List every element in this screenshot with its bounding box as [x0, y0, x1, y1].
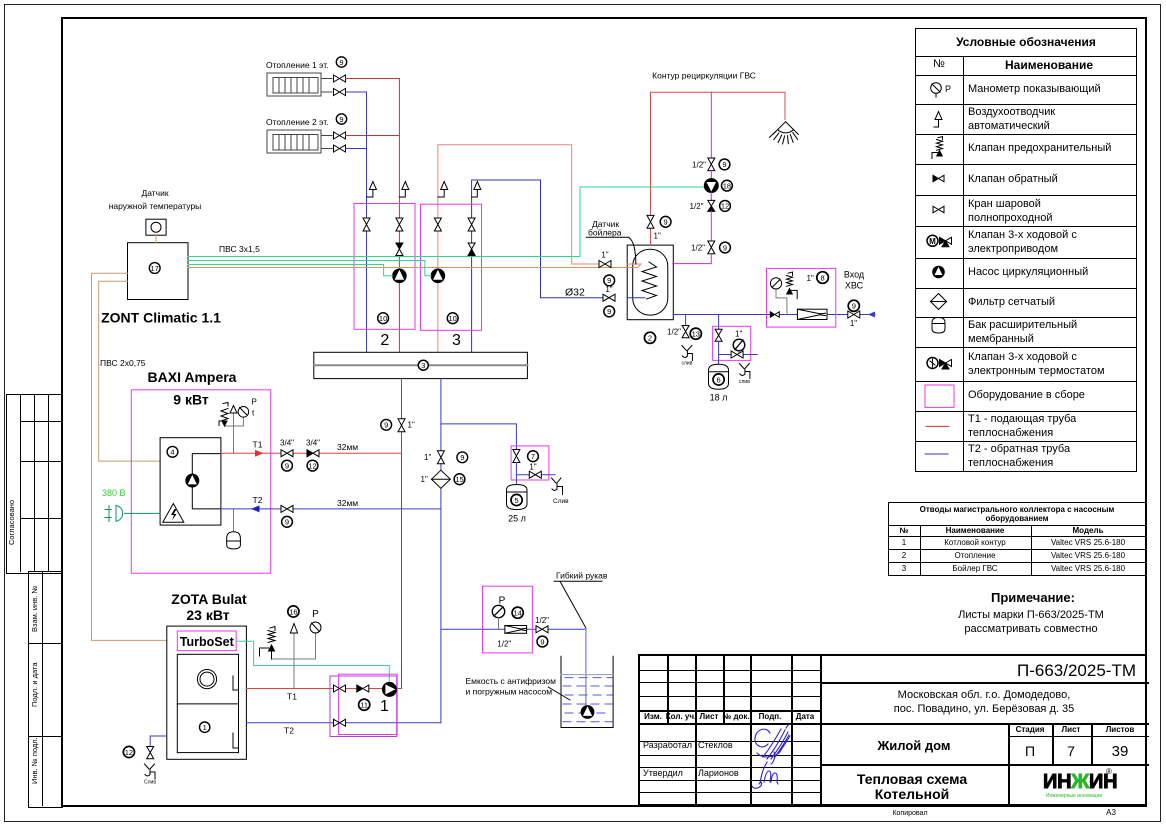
- svg-text:1/2": 1/2": [497, 640, 511, 649]
- firebox divider: [177, 703, 238, 705]
- svg-text:2: 2: [648, 334, 652, 343]
- ball valve 18l drain: [731, 351, 743, 358]
- wire cable green to pump2: [188, 265, 393, 276]
- legend symbol expansion tank: [932, 318, 945, 334]
- ball valve 25l: [513, 450, 520, 463]
- wire T1 BAXI: [221, 452, 402, 454]
- svg-text:Датчик: Датчик: [141, 188, 168, 198]
- svg-text:9: 9: [723, 243, 727, 252]
- svg-text:слив: слив: [682, 361, 693, 367]
- svg-text:BAXI Ampera: BAXI Ampera: [148, 369, 237, 385]
- svg-text:1": 1": [654, 232, 661, 241]
- svg-text:T1: T1: [253, 440, 263, 450]
- wire to antifreeze tank: [441, 628, 586, 630]
- wire cable green to pump3: [188, 261, 431, 276]
- ball valve radiator1 return: [334, 89, 346, 96]
- drain hook ZOTA: [145, 764, 156, 779]
- check valve T1 BAXI: [307, 450, 319, 457]
- air vent ZOTA: [290, 624, 297, 634]
- ball valve antifreeze: [536, 626, 548, 633]
- svg-text:1: 1: [380, 698, 389, 715]
- svg-text:18 л: 18 л: [710, 393, 728, 403]
- left stamp section B: [28, 571, 63, 808]
- wire T2 radiator1: [346, 91, 367, 93]
- svg-text:9: 9: [285, 461, 289, 470]
- pump group2: [393, 269, 407, 283]
- svg-text:12: 12: [721, 202, 729, 211]
- legend symbol air vent: [934, 112, 942, 128]
- wire DHW boiler supply riser: [438, 145, 605, 352]
- DHW recirculation loop: [651, 92, 786, 216]
- ball valve unit1 T2: [334, 719, 346, 726]
- header labels: [644, 713, 662, 721]
- tag 14: [512, 607, 523, 618]
- tag 15 strainer: [454, 474, 465, 485]
- svg-text:Ø32: Ø32: [565, 287, 585, 299]
- label Гибкий рукав: [554, 571, 608, 629]
- svg-text:ПВС 3х1,5: ПВС 3х1,5: [219, 244, 260, 254]
- tag 9 radiator 2: [336, 114, 346, 124]
- pump BAXI: [186, 474, 199, 487]
- expansion 25l assembly box: [511, 446, 549, 480]
- indirect boiler tank: [627, 245, 673, 320]
- ZOTA firebox: [177, 654, 238, 752]
- svg-text:6: 6: [717, 375, 721, 384]
- expansion tank 18l: [709, 364, 729, 389]
- ball valve unit1 T1: [334, 685, 346, 692]
- wire sensor inside tank: [627, 265, 640, 268]
- collector: [314, 352, 528, 378]
- tag 12 drain: [123, 746, 134, 757]
- ball valve boiler supply: [599, 261, 611, 268]
- svg-text:380 В: 380 В: [102, 488, 126, 498]
- wire 18l lines: [719, 341, 758, 364]
- svg-text:7: 7: [531, 452, 535, 461]
- strainer filter riser T2: [432, 470, 451, 488]
- svg-text:ZOTA Bulat: ZOTA Bulat: [171, 591, 247, 607]
- svg-text:9: 9: [339, 58, 343, 67]
- label Датчик бойлера: [586, 219, 636, 264]
- svg-text:15: 15: [455, 475, 463, 484]
- BAXI boiler body: [160, 438, 221, 525]
- expansion 18l assembly box: [713, 326, 751, 360]
- svg-text:и погружным насосом: и погружным насосом: [466, 687, 553, 697]
- ball valve ZOTA drain: [147, 747, 154, 759]
- ball valve riser T1: [398, 419, 405, 432]
- legend symbol T2 line: [925, 453, 948, 455]
- tag 3 collector: [418, 360, 428, 370]
- svg-text:32мм: 32мм: [337, 442, 358, 452]
- svg-text:9: 9: [285, 518, 289, 527]
- legend symbol manometer: [931, 83, 951, 97]
- svg-text:ХВС: ХВС: [845, 281, 864, 291]
- small table отводы: [888, 502, 1146, 576]
- door latch top: [233, 676, 239, 690]
- svg-text:1": 1": [408, 421, 415, 430]
- tag 9 inlet: [848, 300, 859, 311]
- tag 9 boiler supply: [604, 275, 615, 286]
- strainer filter antifreeze: [505, 626, 527, 634]
- tag 13: [690, 328, 701, 339]
- wire cable to ZOTA: [92, 273, 178, 640]
- tag 5: [511, 494, 522, 505]
- Согласовано label: [8, 500, 16, 545]
- svg-text:1": 1": [735, 329, 742, 338]
- svg-text:9: 9: [460, 453, 464, 462]
- heating coil: [642, 262, 657, 299]
- manometer antifreeze: [492, 605, 504, 617]
- wire 380V: [125, 512, 161, 514]
- wire recirc return magenta: [710, 92, 712, 158]
- svg-text:Отопление 2 эт.: Отопление 2 эт.: [266, 117, 329, 127]
- wire heating supply riser: [398, 79, 400, 353]
- tag 12 check: [307, 460, 318, 471]
- water level: [561, 674, 613, 676]
- tag 9 radiator 1: [336, 57, 346, 67]
- tag 9 recirc bottom: [720, 242, 731, 253]
- svg-text:T2: T2: [253, 495, 263, 505]
- svg-text:T2: T2: [284, 726, 294, 736]
- svg-text:1": 1": [424, 453, 431, 462]
- svg-text:23 кВт: 23 кВт: [186, 607, 229, 623]
- T2 flow arrow: [251, 505, 260, 512]
- safety valve ZOTA: [260, 627, 276, 660]
- wire radiator1 return stub: [321, 91, 332, 93]
- radiator heating 1st floor: [267, 73, 321, 96]
- svg-text:1/2": 1/2": [690, 202, 704, 211]
- svg-text:32мм: 32мм: [337, 498, 358, 508]
- svg-text:наружной температуры: наружной температуры: [109, 201, 202, 211]
- svg-text:1: 1: [203, 723, 207, 732]
- inlet group stems: [776, 289, 787, 315]
- ball valve recirc supply: [647, 215, 654, 228]
- signature 2: [752, 762, 778, 788]
- tag 1 zota: [200, 722, 210, 732]
- pump 1: [382, 682, 396, 696]
- legend symbol assembly box: [925, 385, 954, 407]
- svg-text:10: 10: [449, 314, 457, 323]
- svg-text:11: 11: [360, 701, 368, 710]
- svg-text:1": 1": [807, 274, 814, 283]
- svg-text:TurboSet: TurboSet: [180, 635, 235, 649]
- ZOTA boiler box: [167, 626, 247, 759]
- INGIN logo: [1043, 772, 1117, 792]
- antifreeze fill assembly box: [483, 586, 533, 653]
- cold water main: [673, 314, 875, 316]
- svg-text:Гибкий рукав: Гибкий рукав: [556, 571, 608, 581]
- svg-text:2: 2: [380, 332, 389, 349]
- svg-text:5: 5: [515, 496, 519, 505]
- air vent riser 3: [438, 182, 448, 198]
- ZOTA safety stem: [272, 633, 316, 689]
- svg-text:М: М: [929, 237, 936, 246]
- legend symbol ball valve: [933, 206, 944, 212]
- door window: [197, 670, 216, 689]
- tag 4: [167, 446, 178, 457]
- drain hook 18l: [739, 364, 750, 379]
- wire tee to 25l tank: [441, 424, 517, 450]
- tag 6: [713, 374, 724, 385]
- svg-text:1/2": 1/2": [691, 243, 705, 252]
- svg-text:1": 1": [605, 285, 612, 294]
- air vent riser 4: [472, 182, 481, 198]
- svg-text:13: 13: [692, 330, 700, 339]
- svg-text:Р: Р: [945, 84, 951, 94]
- svg-text:1/2": 1/2": [692, 160, 706, 169]
- wire radiator2 return stub: [321, 148, 332, 150]
- tag 9 antifreeze: [537, 636, 548, 647]
- svg-text:18: 18: [723, 181, 731, 190]
- legend symbol strainer: [931, 294, 947, 310]
- ball valve radiator2 return: [334, 145, 346, 152]
- svg-text:P: P: [252, 398, 257, 407]
- wire boiler return port inside: [627, 297, 645, 299]
- tag 10 group2: [378, 313, 389, 324]
- expansion tank 25l: [507, 485, 528, 510]
- ball valve riser T2: [437, 451, 444, 464]
- svg-text:T1: T1: [287, 692, 297, 702]
- tag 10 group3: [447, 313, 458, 324]
- svg-text:4: 4: [170, 448, 174, 457]
- wire green turboset to pump1: [236, 641, 389, 683]
- tag 12 recirc: [720, 201, 731, 212]
- wire boiler supply riser below collector: [401, 379, 403, 689]
- wire DHW boiler return riser: [472, 180, 604, 352]
- svg-text:9 кВт: 9 кВт: [173, 392, 209, 408]
- svg-text:Контур рециркуляции ГВС: Контур рециркуляции ГВС: [652, 71, 756, 81]
- check valve group2 supply: [396, 243, 403, 256]
- right cells text: [1017, 662, 1136, 679]
- ball valve radiator1 supply: [334, 75, 346, 82]
- svg-text:3: 3: [452, 332, 461, 349]
- submersible pump: [581, 706, 594, 719]
- tag 9 riser T2 valve: [457, 452, 468, 463]
- wire recirc below pump: [710, 193, 712, 201]
- ZONT controller box: [128, 243, 189, 300]
- tag 2 boiler: [644, 332, 655, 343]
- ball valve radiator2 supply: [334, 132, 346, 139]
- tag 9 recirc top: [719, 159, 730, 170]
- radiator heating 2nd floor: [267, 130, 321, 153]
- shower head: [770, 122, 799, 144]
- air vent riser 1: [367, 182, 377, 198]
- svg-text:3/4": 3/4": [280, 439, 294, 448]
- plug symbol 380V: [105, 506, 123, 522]
- svg-text:ZONT Climatic 1.1: ZONT Climatic 1.1: [101, 310, 221, 326]
- ball valve group2 supply: [396, 218, 403, 231]
- wire T1 radiator2: [346, 135, 400, 137]
- ball valve group3 return: [468, 218, 475, 231]
- strainer filter inlet: [797, 309, 827, 319]
- svg-text:9: 9: [540, 637, 544, 646]
- left part rows: [640, 670, 820, 671]
- TurboSet box: [177, 631, 236, 651]
- wire radiator2 supply stub: [321, 135, 332, 137]
- svg-text:3/4": 3/4": [306, 438, 320, 447]
- wire recirc lower: [710, 211, 712, 241]
- wire boiler return riser below collector: [440, 379, 442, 723]
- wire drain tee 13: [685, 315, 687, 326]
- drain hook 13: [682, 346, 693, 361]
- right part rows: [820, 682, 1149, 684]
- svg-text:9: 9: [722, 160, 726, 169]
- svg-text:12: 12: [125, 748, 133, 757]
- wire heating return riser: [366, 92, 368, 352]
- svg-text:ПВС 2х0,75: ПВС 2х0,75: [100, 358, 146, 368]
- svg-text:9: 9: [384, 421, 388, 430]
- flexible hose: [585, 629, 587, 708]
- outdoor sensor box: [146, 219, 166, 235]
- tag 9 riser T1 valve: [381, 419, 392, 430]
- ball valve T1 BAXI: [281, 450, 293, 457]
- svg-text:25 л: 25 л: [508, 514, 526, 524]
- wire tee to 18l tank: [718, 315, 720, 330]
- svg-text:1": 1": [529, 463, 536, 472]
- svg-text:1/2": 1/2": [667, 328, 681, 337]
- legend symbol 3-way thermostat: [927, 358, 952, 370]
- tag 11: [359, 699, 370, 710]
- svg-text:10: 10: [379, 314, 387, 323]
- svg-text:Слив: Слив: [553, 498, 569, 505]
- wire recirc to tank port: [673, 254, 712, 264]
- air vent riser 2: [399, 182, 408, 198]
- legend symbol T1 line: [926, 425, 949, 427]
- tag 8: [817, 272, 829, 284]
- cold water end arrow: [868, 312, 875, 318]
- wire sensor stem: [155, 235, 157, 243]
- svg-text:3: 3: [421, 361, 425, 370]
- pump unit 1 violet box: [330, 676, 397, 737]
- manometer inlet: [770, 278, 781, 289]
- manometer ZOTA: [310, 622, 321, 633]
- wire cable to BAXI: [99, 281, 160, 461]
- svg-text:бойлера: бойлера: [588, 228, 622, 238]
- wire ZOTA drain: [150, 736, 167, 747]
- check valve recirc: [708, 200, 715, 211]
- wire T2 BAXI: [221, 508, 441, 510]
- wire T2 radiator2: [346, 148, 367, 150]
- svg-text:слив: слив: [739, 379, 750, 385]
- drain hook 25l: [552, 478, 563, 495]
- manometer BAXI: [238, 407, 249, 418]
- BAXI expansion tank: [227, 532, 241, 549]
- svg-text:Вход: Вход: [844, 270, 865, 280]
- wire boiler supply port inside: [627, 263, 641, 265]
- svg-text:8: 8: [821, 273, 825, 282]
- svg-text:1/2": 1/2": [535, 616, 549, 625]
- ball valve inlet: [848, 311, 860, 318]
- antifreeze tank walls: [561, 656, 613, 727]
- check valve inlet: [770, 312, 779, 317]
- signature 1: [755, 724, 790, 764]
- svg-text:P: P: [312, 609, 319, 620]
- svg-text:t: t: [252, 409, 255, 418]
- safety valve BAXI: [219, 403, 228, 427]
- tank capsule: [633, 249, 668, 315]
- ball valve group3 supply: [434, 218, 441, 231]
- ball valve group2 return: [363, 218, 370, 231]
- title block: [638, 654, 1147, 806]
- svg-text:9: 9: [664, 218, 668, 227]
- svg-text:9: 9: [607, 307, 611, 316]
- svg-text:17: 17: [151, 264, 159, 273]
- svg-text:1": 1": [601, 251, 608, 260]
- svg-text:14: 14: [514, 609, 522, 618]
- tag 9 T2 valve: [282, 516, 293, 527]
- svg-text:16: 16: [289, 607, 297, 616]
- tag 9 T1 valve: [282, 460, 293, 471]
- wire cable green to recirc pump: [188, 187, 705, 257]
- tag 9 boiler return: [604, 306, 615, 317]
- svg-text:Слив: Слив: [144, 780, 156, 786]
- tag 18: [722, 180, 733, 191]
- wire T2 ZOTA: [246, 722, 441, 724]
- ball valve recirc bottom: [708, 241, 715, 254]
- ball valve drain 13: [682, 326, 689, 338]
- safety valve inlet: [787, 272, 798, 299]
- svg-text:1": 1": [850, 319, 857, 328]
- door latch bottom: [233, 733, 239, 748]
- legend symbol check valve: [933, 175, 944, 181]
- BAXI safety manifold: [225, 413, 244, 453]
- wire T1 ZOTA: [246, 688, 401, 690]
- manometer stem antifreeze: [498, 618, 500, 630]
- tag 9 recirc supply: [660, 216, 671, 227]
- svg-text:1": 1": [421, 475, 428, 484]
- recirc pump 18: [704, 179, 718, 193]
- svg-text:9: 9: [339, 115, 343, 124]
- BAXI expansion tank stem: [233, 509, 235, 532]
- legend symbol pump: [933, 266, 945, 278]
- label Емкость с антифризом: [466, 676, 570, 700]
- tag 16: [288, 606, 299, 617]
- air vent BAXI: [230, 406, 237, 414]
- wire T1 radiator1: [346, 78, 400, 80]
- svg-text:Емкость с антифризом: Емкость с антифризом: [466, 676, 557, 686]
- wire recirc to tank top: [650, 228, 652, 246]
- pump group3: [431, 269, 445, 283]
- wire radiator1 supply stub: [321, 78, 332, 80]
- pump group 3 assembly box: [421, 204, 482, 330]
- cold water inlet assembly box 8: [767, 268, 836, 327]
- main vertical dividers: [820, 656, 822, 804]
- note: [991, 591, 1075, 604]
- hazard triangle: [163, 504, 184, 523]
- water dashes: [563, 678, 612, 722]
- wire recirc mid: [710, 171, 712, 179]
- wire 25l drain: [516, 463, 555, 485]
- svg-text:9: 9: [852, 302, 856, 311]
- tag 7: [528, 451, 539, 462]
- svg-text:12: 12: [308, 461, 316, 470]
- left part thin columns: [667, 656, 669, 723]
- tag 17: [149, 263, 160, 274]
- wire cable to boiler sensor: [188, 267, 638, 269]
- legend table: [915, 28, 1137, 472]
- ball valve recirc top: [708, 158, 715, 171]
- svg-text:Отопление 1 эт.: Отопление 1 эт.: [266, 60, 329, 70]
- T1 flow arrow: [255, 450, 264, 457]
- pump unit 1 magenta box: [339, 674, 398, 734]
- check valve unit1: [357, 685, 369, 692]
- BAXI internal pipe: [192, 454, 221, 509]
- ball valve T2 BAXI: [281, 505, 293, 512]
- ball valve 18l: [715, 329, 722, 341]
- left stamp section A grid: [6, 394, 63, 574]
- ball valve boiler return: [603, 294, 615, 301]
- manometer 18l: [733, 339, 745, 351]
- pump group 2 assembly box: [354, 204, 415, 330]
